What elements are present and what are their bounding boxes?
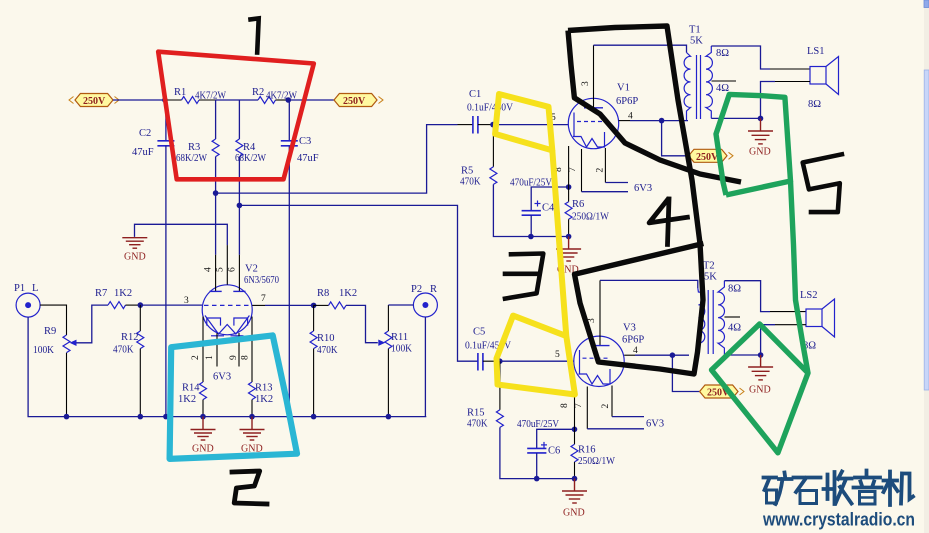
resistor R7 1K2 xyxy=(95,288,132,309)
svg-text:5: 5 xyxy=(216,267,226,272)
svg-text:4: 4 xyxy=(633,346,638,356)
wire R4 to node xyxy=(238,157,240,206)
node LS1 ground xyxy=(758,116,764,122)
V3 pin 8 lead to R16 xyxy=(574,384,576,429)
svg-text:1K2: 1K2 xyxy=(178,394,196,405)
svg-text:C3: C3 xyxy=(299,136,311,147)
node R16/ground xyxy=(572,476,578,482)
transformer T2 5K primary xyxy=(698,288,705,355)
black digit 2 xyxy=(232,471,267,504)
svg-text:L: L xyxy=(32,283,38,294)
transformer T1 5K primary xyxy=(684,53,690,121)
V2 grid (dashed) xyxy=(204,304,250,306)
svg-text:6P6P: 6P6P xyxy=(622,335,644,346)
wire V2 pin5 to ground xyxy=(135,224,228,245)
pin 5 lead xyxy=(226,245,228,285)
node C4 bottom xyxy=(528,234,534,240)
svg-text:250V: 250V xyxy=(696,152,719,163)
resistor R1 4K7/2W xyxy=(174,87,226,104)
svg-text:R15: R15 xyxy=(467,408,485,419)
power port 250V (left) xyxy=(69,94,119,108)
svg-text:6V3: 6V3 xyxy=(213,372,231,383)
svg-text:C5: C5 xyxy=(473,327,485,338)
svg-text:100K: 100K xyxy=(33,345,54,356)
svg-text:C4: C4 xyxy=(542,203,555,214)
wire C2 down the long vertical to ground bus xyxy=(165,146,167,417)
node junction 250V/C2 xyxy=(162,97,168,103)
svg-text:470K: 470K xyxy=(467,419,488,430)
node C2/bus xyxy=(163,414,169,420)
resistor R3 68K/2W xyxy=(176,100,219,164)
svg-text:T1: T1 xyxy=(689,25,701,36)
black marker region 4 (left edge and diagonal) xyxy=(568,31,741,183)
V3 cathode xyxy=(579,369,611,384)
svg-text:R: R xyxy=(430,284,437,295)
node V3 screen/250V xyxy=(670,352,676,358)
svg-text:R12: R12 xyxy=(121,332,139,343)
svg-text:R5: R5 xyxy=(461,166,473,177)
svg-text:R3: R3 xyxy=(188,142,200,153)
tube V1 6P6P envelope xyxy=(568,98,618,148)
svg-text:470K: 470K xyxy=(317,345,338,356)
svg-text:R2: R2 xyxy=(252,87,264,98)
V1 pin 8 lead to R6 xyxy=(568,146,570,187)
svg-text:www.crystalradio.cn: www.crystalradio.cn xyxy=(762,510,915,530)
svg-text:4: 4 xyxy=(628,112,633,122)
svg-text:5: 5 xyxy=(555,350,560,360)
wire V1 plate to T1 xyxy=(594,45,687,52)
capacitor C3 47uF xyxy=(281,100,319,164)
capacitor C6 470uF/25V xyxy=(517,419,575,479)
wire P1 down to bus xyxy=(28,317,66,417)
wire R5 bottom to cathode bus xyxy=(493,184,531,236)
ground GND (V3 cathode) xyxy=(562,479,587,519)
ground bus wire (bottom) xyxy=(67,416,427,418)
pin 4 lead xyxy=(215,193,217,255)
wire R1 to R2 xyxy=(199,99,216,101)
node C6 top/pin8 xyxy=(572,427,578,433)
svg-text:47uF: 47uF xyxy=(297,153,319,164)
wire C1 node to V1 grid xyxy=(493,124,568,126)
svg-text:8Ω: 8Ω xyxy=(808,99,821,110)
V2 heater xyxy=(205,316,249,335)
red marker region 1 xyxy=(158,52,314,180)
V3 pin 7 heater lead xyxy=(586,387,588,429)
V1 pin 7 heater lead xyxy=(581,149,583,192)
ground GND (LS2) xyxy=(748,355,773,396)
wire rail to R1 lead xyxy=(165,99,182,101)
svg-text:1: 1 xyxy=(205,355,215,360)
svg-text:P2: P2 xyxy=(411,284,422,295)
V3 pin4 (screen) wire xyxy=(624,354,635,356)
node R6/ground xyxy=(566,234,572,240)
green marker long stroke and diamond xyxy=(712,181,809,453)
wire P2 to R11 top xyxy=(388,304,413,306)
capacitor C4 470uF/25V xyxy=(510,178,569,237)
svg-text:R4: R4 xyxy=(243,142,256,153)
black digit 4 xyxy=(649,199,687,244)
node LS2 ground xyxy=(758,352,764,358)
wire R2 to junction xyxy=(276,99,289,101)
wire T1 secondary bottom xyxy=(711,117,760,119)
wire P2 down to bus end xyxy=(424,317,426,417)
wire R8 to R11 wiper xyxy=(346,305,378,342)
svg-text:V3: V3 xyxy=(623,323,636,334)
speaker LS1 xyxy=(810,57,839,95)
tube V3 6P6P envelope xyxy=(574,336,624,386)
capacitor C1 0.1uF/450V xyxy=(458,89,514,134)
node C3/bus xyxy=(287,414,293,420)
svg-text:6P6P: 6P6P xyxy=(616,96,638,107)
node screen/250V xyxy=(659,118,665,124)
wire T1 8R to LS1 xyxy=(711,46,770,69)
resistor R16 250R/1W xyxy=(571,429,615,478)
svg-text:470K: 470K xyxy=(113,345,134,356)
speaker LS2 xyxy=(806,299,835,337)
node C6 bottom xyxy=(534,476,540,482)
pin 2 lead to R14 xyxy=(202,317,204,383)
T2 core xyxy=(707,290,709,354)
wire R9 bottom to bus xyxy=(66,353,68,417)
V1 plate pin 3 xyxy=(593,45,595,108)
V1 pin4 (screen) wire xyxy=(619,120,630,122)
T1 core xyxy=(696,55,698,119)
T1 secondary 4R tap stub xyxy=(712,80,737,82)
wire R15 bottom to cathode bus xyxy=(500,427,537,478)
svg-text:GND: GND xyxy=(749,147,771,158)
wire C4 bottom to R6 bottom xyxy=(531,236,569,238)
svg-text:3: 3 xyxy=(581,81,591,86)
svg-text:5K: 5K xyxy=(704,272,717,283)
V3 plate pin 3 xyxy=(599,280,601,345)
node R9/bus xyxy=(64,414,70,420)
svg-text:R14: R14 xyxy=(182,383,200,394)
watermark char ji xyxy=(884,472,898,506)
power port 250V (V1 screen) xyxy=(689,149,733,163)
ground GND (input stage) xyxy=(122,238,147,249)
wire 250V rail left xyxy=(113,99,165,101)
svg-text:2: 2 xyxy=(191,355,201,360)
pin 1 lead xyxy=(216,333,218,367)
T1 secondary xyxy=(706,46,712,118)
scrollbar track xyxy=(924,0,929,533)
svg-text:P1: P1 xyxy=(14,283,25,294)
resistor R13 1K2 xyxy=(249,382,274,417)
resistor R2 4K7/2W xyxy=(252,87,297,104)
yellow marker region 3 (top loop) xyxy=(495,94,552,150)
svg-text:GND: GND xyxy=(124,252,146,263)
svg-text:GND: GND xyxy=(192,444,214,455)
wire R3 to node xyxy=(215,157,217,194)
node R11/bus xyxy=(386,414,392,420)
svg-text:4Ω: 4Ω xyxy=(728,323,741,334)
svg-text:2: 2 xyxy=(601,404,611,409)
svg-text:5K: 5K xyxy=(690,36,703,47)
svg-text:3: 3 xyxy=(184,296,189,306)
node R3/V2 plate xyxy=(213,190,219,196)
capacitor C5 0.1uF/450V xyxy=(465,327,511,371)
resistor R14 1K2 xyxy=(178,382,207,417)
svg-text:8Ω: 8Ω xyxy=(728,284,741,295)
svg-text:470K: 470K xyxy=(460,177,481,188)
black marker region 4 (outline) xyxy=(568,26,703,374)
resistor R12 470K xyxy=(113,305,144,417)
pin 6 lead xyxy=(238,205,240,254)
svg-text:8Ω: 8Ω xyxy=(716,48,729,59)
node R14/bus xyxy=(200,414,206,420)
potentiometer R9 100K xyxy=(33,305,108,356)
svg-text:250Ω/1W: 250Ω/1W xyxy=(578,456,615,467)
svg-text:LS1: LS1 xyxy=(807,46,825,57)
svg-text:100K: 100K xyxy=(391,344,412,355)
svg-text:7: 7 xyxy=(261,294,266,304)
ground GND (LS1) xyxy=(748,118,773,157)
svg-text:68K/2W: 68K/2W xyxy=(176,153,207,164)
pin 9 lead xyxy=(238,333,240,367)
node R8/R10 xyxy=(311,303,317,309)
svg-text:V1: V1 xyxy=(617,83,630,94)
resistor R10 470K xyxy=(310,305,338,416)
V2 plates xyxy=(210,290,222,292)
svg-text:470uF/25V: 470uF/25V xyxy=(510,178,552,189)
svg-text:250V: 250V xyxy=(83,96,106,107)
svg-text:R1: R1 xyxy=(174,87,186,98)
svg-text:V2: V2 xyxy=(245,264,258,275)
black digit 5 xyxy=(803,154,842,212)
wire LS1 return to ground xyxy=(775,81,810,83)
svg-text:4: 4 xyxy=(204,267,214,272)
node C4 top/pin7 xyxy=(566,184,572,190)
node C5/R15 xyxy=(497,358,503,364)
ground GND (V1 cathode) xyxy=(556,237,581,276)
wire R7 to node xyxy=(126,304,141,306)
svg-text:250Ω/1W: 250Ω/1W xyxy=(572,212,609,223)
wire V2 plate1 to C1 xyxy=(216,125,458,194)
V1 pin 2 heater lead xyxy=(604,148,606,183)
svg-text:1K2: 1K2 xyxy=(114,288,132,299)
svg-text:GND: GND xyxy=(749,385,771,396)
resistor R8 1K2 xyxy=(314,288,357,309)
svg-text:R6: R6 xyxy=(572,199,584,210)
resistor R15 470K xyxy=(467,361,503,429)
svg-text:8: 8 xyxy=(241,355,251,360)
svg-text:0.1uF/450V: 0.1uF/450V xyxy=(467,103,513,114)
svg-text:1K2: 1K2 xyxy=(339,288,357,299)
svg-text:R8: R8 xyxy=(317,288,329,299)
resistor R5 470K xyxy=(460,125,497,188)
svg-text:8: 8 xyxy=(560,403,570,408)
svg-text:R13: R13 xyxy=(255,383,273,394)
watermark char kuang xyxy=(764,478,777,491)
cyan marker region 2 xyxy=(170,335,297,459)
svg-text:T2: T2 xyxy=(703,261,715,272)
pin 8 lead to R13 xyxy=(251,317,253,383)
svg-text:6V3: 6V3 xyxy=(646,419,664,430)
V2 cathodes xyxy=(207,318,221,326)
node R13/bus xyxy=(249,414,255,420)
svg-text:R16: R16 xyxy=(578,445,596,456)
black digit 1 xyxy=(251,18,259,52)
svg-text:7: 7 xyxy=(568,167,578,172)
potentiometer R11 100K xyxy=(378,305,412,417)
wire C6 bottom to R16 bottom xyxy=(537,478,575,480)
svg-text:6: 6 xyxy=(228,267,238,272)
wire T2 8R to LS2 xyxy=(724,281,770,312)
capacitor C2 47uF xyxy=(132,100,174,158)
svg-text:470uF/25V: 470uF/25V xyxy=(517,419,559,430)
svg-text:C6: C6 xyxy=(548,446,560,457)
pin 7 wire to R8 xyxy=(252,304,265,306)
connector P1_L xyxy=(14,283,40,317)
svg-text:R7: R7 xyxy=(95,288,107,299)
wire screen node to 250V port xyxy=(672,355,699,391)
black digit 3 xyxy=(505,254,543,299)
node R10/bus xyxy=(311,414,317,420)
svg-text:7: 7 xyxy=(574,403,584,408)
svg-text:1K2: 1K2 xyxy=(255,394,273,405)
svg-text:C2: C2 xyxy=(139,128,151,139)
yellow marker tail and bottom loop xyxy=(497,150,575,394)
scrollbar thumb xyxy=(924,70,929,390)
svg-text:9: 9 xyxy=(229,355,239,360)
wire LS2 return to ground xyxy=(775,324,806,326)
V1 grid bar and dashes xyxy=(573,113,575,137)
svg-text:250V: 250V xyxy=(343,96,366,107)
node R4/V2 plate 2 xyxy=(237,203,243,209)
wire node to V2 pin3 xyxy=(140,304,202,306)
svg-text:R11: R11 xyxy=(391,332,408,343)
ground GND (R13) xyxy=(240,417,265,455)
T2 secondary xyxy=(718,281,724,355)
scrollbar top button xyxy=(924,0,929,8)
svg-text:R9: R9 xyxy=(44,326,56,337)
svg-text:4Ω: 4Ω xyxy=(716,83,729,94)
node C1/R5 xyxy=(490,122,496,128)
svg-text:C1: C1 xyxy=(469,89,481,100)
resistor R6 250R/1W xyxy=(565,187,609,237)
power port 250V (second) xyxy=(334,94,383,108)
node junction R2/C3 xyxy=(286,97,292,103)
wire C5 node to V3 grid xyxy=(500,360,574,362)
watermark char shi xyxy=(794,478,821,493)
wire V3 plate to T2 xyxy=(600,280,698,288)
power port 250V (V3 screen) xyxy=(700,385,744,399)
wire V2 plate2 to C5 xyxy=(239,205,478,361)
connector P2_R xyxy=(411,284,437,317)
svg-text:6N3/5670: 6N3/5670 xyxy=(244,275,279,286)
svg-text:GND: GND xyxy=(563,508,585,519)
watermark char shou xyxy=(824,472,835,504)
wire T2 secondary bottom xyxy=(724,354,760,356)
resistor R4 68K/2W xyxy=(235,100,266,164)
green marker region 5 (top quad) xyxy=(716,94,791,195)
tube V2 envelope xyxy=(202,285,252,335)
V3 pin 2 heater lead xyxy=(611,386,613,417)
wire screen node to 250V port xyxy=(662,121,689,156)
wire P1 to R9 top xyxy=(40,305,66,335)
node R12/bus xyxy=(138,414,144,420)
watermark char yin xyxy=(854,471,882,488)
wire C3 long vertical to ground bus xyxy=(288,146,290,417)
node R7/R12 xyxy=(138,302,144,308)
svg-text:2: 2 xyxy=(596,168,606,173)
svg-text:47uF: 47uF xyxy=(132,147,154,158)
svg-text:R10: R10 xyxy=(317,333,335,344)
V3 grid bar and dashes xyxy=(579,350,581,374)
V1 cathode xyxy=(573,132,605,147)
wire junction to 250V right port xyxy=(288,99,334,101)
T2 4R tap stub xyxy=(724,316,740,318)
svg-text:6V3: 6V3 xyxy=(634,183,652,194)
ground GND (R14) xyxy=(191,417,216,455)
svg-text:LS2: LS2 xyxy=(800,290,818,301)
